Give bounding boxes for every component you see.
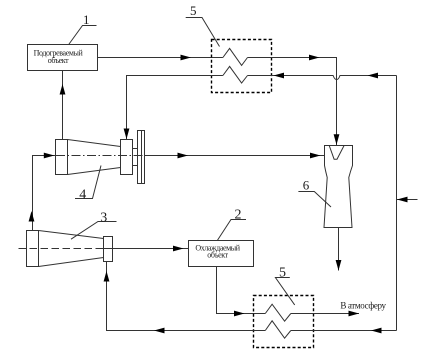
svg-text:5: 5 bbox=[279, 265, 286, 280]
wire box 2 bottom to HX5 bottom upper pass bbox=[217, 267, 266, 314]
svg-text:объект: объект bbox=[48, 56, 69, 65]
svg-text:В атмосферу: В атмосферу bbox=[340, 301, 386, 311]
air inlet arrow right edge bbox=[397, 199, 418, 201]
wire right vertical air line bbox=[396, 76, 398, 331]
svg-text:3: 3 bbox=[100, 210, 107, 225]
heat exchanger 5 bottom : upper coil bbox=[265, 304, 291, 321]
compressor 4 left rect bbox=[56, 140, 68, 175]
svg-text:1: 1 bbox=[83, 12, 90, 27]
wire HX5top lower out left, down into compressor 4 neck bbox=[127, 76, 223, 140]
label 3 leader bbox=[71, 222, 117, 240]
turbine 3 small rect bbox=[104, 237, 113, 262]
compressor 4 neck rect bbox=[121, 140, 133, 175]
turbine 3 axis dashed bbox=[19, 248, 104, 250]
label 4 leader bbox=[75, 166, 101, 199]
svg-text:объект: объект bbox=[207, 251, 228, 260]
wire turbine 3 to box 2 bbox=[104, 248, 189, 250]
label 2 leader bbox=[217, 220, 246, 241]
wire HX5 bottom upper out to atmosphere bbox=[291, 313, 359, 315]
svg-text:4: 4 bbox=[79, 187, 86, 202]
svg-text:6: 6 bbox=[303, 177, 310, 192]
heat exchanger 5 top : dashed box bbox=[212, 40, 272, 93]
wire from compressor 4 up into box 1 bbox=[62, 71, 64, 140]
svg-text:5: 5 bbox=[190, 3, 197, 18]
wire box1 right to heat exchanger 5 top bbox=[98, 57, 223, 59]
svg-text:2: 2 bbox=[235, 208, 242, 223]
turbine 3 cone bbox=[39, 231, 104, 267]
turbine 3 left rect bbox=[27, 231, 39, 267]
label 5 top leader bbox=[186, 18, 220, 47]
heat exchanger 5 top : lower coil bbox=[223, 66, 248, 83]
heat exchanger 5 top : upper coil bbox=[223, 48, 248, 65]
heat exchanger 5 bottom : lower coil bbox=[265, 321, 291, 338]
label 6 leader bbox=[298, 192, 331, 208]
vortex tube 6 funnel bbox=[329, 146, 344, 160]
wire HX5top upper out, corner down into vortex tube 6 bbox=[248, 58, 337, 146]
compressor 4 disc bbox=[138, 131, 145, 184]
wire compressor 4 to vortex tube 6 bbox=[145, 155, 325, 157]
compressor 4 cone bbox=[68, 140, 121, 175]
box 2 Охлаждаемый объект bbox=[189, 241, 254, 267]
wire vortex tube 6 bottom outlet bbox=[338, 228, 340, 271]
heat exchanger 5 bottom : dashed box bbox=[254, 296, 314, 348]
wire HX5 bottom lower out left and up into turbine 3 bbox=[107, 262, 266, 331]
vortex tube 6 body bbox=[324, 146, 353, 228]
wire air line into HX5 bottom lower pass bbox=[291, 330, 397, 332]
compressor 4 axis dash-dot bbox=[56, 155, 145, 157]
compressor 4 coupling tabs bbox=[133, 149, 138, 166]
label 1 leader bbox=[69, 26, 97, 45]
wire turbine 3 outlet up and right into compressor 4 bbox=[33, 156, 56, 231]
wire air to HX5top lower pass (with hop) bbox=[248, 76, 397, 80]
box 1 Подогреваемый объект bbox=[28, 45, 98, 71]
label 5 bottom leader bbox=[275, 278, 294, 305]
